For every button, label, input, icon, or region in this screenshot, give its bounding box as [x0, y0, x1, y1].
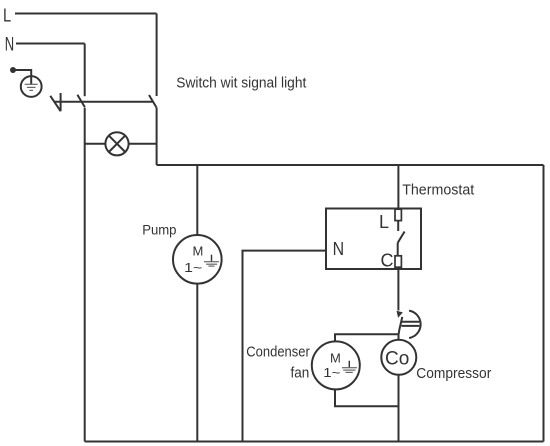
svg-text:C: C	[381, 251, 394, 271]
svg-text:Compressor: Compressor	[416, 365, 491, 382]
wire right edge	[543, 165, 545, 442]
wire L vertical down to switch	[156, 14, 158, 97]
compressor circle Co	[381, 340, 416, 375]
svg-text:N: N	[5, 35, 14, 56]
svg-text:N: N	[333, 238, 345, 259]
svg-text:Pump: Pump	[142, 222, 176, 238]
svg-text:L: L	[379, 212, 389, 232]
wire compressor bottom	[398, 375, 400, 442]
wire condenser fan bottom	[335, 389, 399, 406]
wire L below switch to bus corner	[156, 107, 158, 165]
svg-text:fan: fan	[291, 364, 310, 381]
motor M1 ground symbol	[211, 255, 213, 262]
earth electrode circle	[21, 76, 42, 97]
thermostat wire above C terminal	[397, 243, 399, 256]
svg-text:M: M	[330, 351, 341, 366]
wire bottom bus	[85, 441, 544, 443]
wire earth	[16, 70, 32, 84]
motor M2 condenser fan circle	[312, 341, 360, 389]
motor M1 pump circle	[173, 235, 222, 284]
wire condenser branch	[335, 334, 399, 341]
wire thermostat to protector	[397, 267, 399, 310]
earth dot	[10, 67, 16, 73]
motor protector blade	[399, 317, 403, 334]
svg-text:1~: 1~	[323, 365, 340, 380]
wire pump to bottom bus	[196, 284, 198, 442]
thermostat wire below L terminal	[397, 221, 399, 231]
thermostat box	[326, 209, 421, 270]
signal lamp wires	[85, 143, 106, 145]
wire N horizontal	[16, 43, 85, 45]
wire N into thermostat	[243, 251, 327, 442]
motor M2 ground symbol	[348, 361, 350, 368]
switch linkage wire	[54, 101, 153, 103]
svg-text:Thermostat: Thermostat	[402, 181, 475, 198]
earth bars	[25, 84, 38, 90]
svg-text:L: L	[3, 4, 11, 25]
wire N vertical down to switch	[84, 44, 86, 97]
svg-text:Condenser: Condenser	[246, 344, 309, 361]
svg-text:Co: Co	[385, 349, 409, 370]
wire thermostat branch	[397, 165, 399, 209]
switch blade on L pole	[149, 95, 156, 107]
wire protector to compressor	[398, 334, 400, 340]
wire top bus	[157, 164, 544, 166]
signal lamp	[105, 132, 128, 155]
motor protector arc	[409, 311, 421, 338]
svg-text:Switch wit signal light: Switch wit signal light	[176, 75, 307, 92]
wire N below switch down to bottom bus	[84, 108, 86, 442]
thermostat blade	[398, 232, 405, 243]
svg-text:1~: 1~	[184, 260, 202, 275]
wire L horizontal	[15, 13, 157, 15]
switch blade on N pole	[77, 95, 85, 108]
thermostat terminal C	[395, 256, 401, 267]
switch actuator symbol	[50, 96, 60, 111]
thermostat terminal L	[395, 209, 401, 220]
motor protector arrow	[397, 311, 403, 318]
svg-text:M: M	[193, 244, 204, 259]
motor protector bars	[402, 321, 420, 323]
wire pump branch	[196, 165, 198, 235]
